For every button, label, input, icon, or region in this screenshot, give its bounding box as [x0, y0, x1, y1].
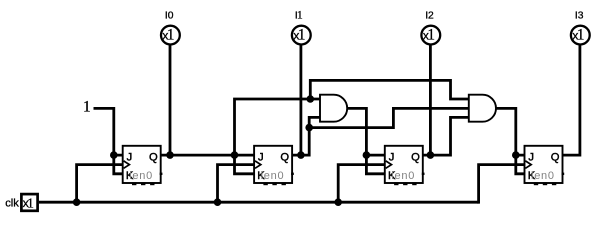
wire I2 riser: [429, 44, 432, 155]
flip-flop U4 JK: [525, 146, 565, 185]
junction FF1 J node: [110, 151, 118, 159]
junction AND2 FF4.J: [512, 151, 520, 159]
wire clk riser FF4: [479, 165, 525, 204]
svg-text:1: 1: [167, 27, 175, 44]
svg-text:Q: Q: [551, 151, 560, 163]
svg-text:J: J: [258, 151, 264, 163]
wire clk bus: [39, 201, 479, 204]
junction clk bus FF2: [214, 198, 222, 206]
wire I1 riser: [299, 44, 302, 155]
junction clk bus FF1: [73, 198, 81, 206]
output pin I1: [292, 26, 311, 45]
svg-text:1: 1: [298, 27, 306, 44]
svg-text:clk: clk: [5, 198, 19, 210]
svg-text:I3: I3: [575, 10, 584, 21]
wire AND2 out to FF4: [496, 108, 525, 155]
flip-flop U2 JK: [254, 146, 294, 185]
svg-text:I2: I2: [425, 10, 434, 21]
wire FF1 K elbow: [114, 155, 123, 174]
svg-text:len0: len0: [531, 170, 555, 182]
wire Q3: FF4.Q to I3: [563, 44, 580, 155]
wire I0 riser: [169, 44, 172, 155]
wire const-1 to FF1 J: [94, 108, 123, 155]
svg-text:J: J: [127, 151, 133, 163]
AND gate G1: [320, 95, 347, 122]
wire FF2 K elbow: [235, 155, 255, 174]
wire Q1 rail to AND2.in2: [309, 108, 469, 127]
svg-text:len0: len0: [129, 170, 153, 182]
wire FF3 K elbow: [366, 155, 384, 174]
input pin clk: [21, 194, 37, 211]
wire FF4 K elbow: [516, 155, 525, 174]
wire AND1 out to FF3: [347, 108, 385, 155]
wire Q0 top rail to AND2.in1: [310, 80, 469, 99]
wire clk riser FF1: [77, 165, 123, 203]
output pin I0: [161, 26, 180, 45]
wire Q0 riser to AND1.in1: [235, 99, 321, 155]
svg-text:1: 1: [427, 27, 435, 44]
svg-text:1: 1: [27, 195, 34, 210]
svg-text:Q: Q: [411, 151, 420, 163]
svg-text:J: J: [389, 151, 395, 163]
output pin I3: [571, 26, 590, 45]
svg-text:J: J: [528, 151, 534, 163]
wire clk riser FF3: [338, 165, 385, 203]
svg-text:Q: Q: [149, 151, 158, 163]
flip-flop U1 JK: [123, 146, 163, 185]
junction clk bus FF3: [334, 198, 342, 206]
svg-text:len0: len0: [261, 170, 285, 182]
flip-flop U3 JK: [385, 146, 425, 185]
junction Q0 AND1.in1: [307, 95, 315, 103]
junction I1 tap: [297, 151, 305, 159]
svg-text:len0: len0: [391, 170, 415, 182]
svg-text:I0: I0: [165, 10, 174, 21]
output pin I2: [421, 26, 440, 45]
junction Q1 rail tap: [305, 124, 313, 132]
junction I0 tap: [166, 151, 174, 159]
svg-text:1: 1: [83, 99, 91, 116]
wire Q1: FF2.Q elbow to AND1.in2: [292, 117, 320, 155]
AND gate G2: [469, 95, 496, 122]
wire Q0: FF1.Q to FF2.J: [161, 154, 254, 157]
svg-text:1: 1: [577, 27, 585, 44]
svg-text:Q: Q: [280, 151, 289, 163]
junction I2 tap: [427, 151, 435, 159]
svg-text:1: 1: [297, 8, 303, 22]
junction AND1 FF3.J: [363, 151, 371, 159]
wire Q2: FF3.Q to AND2.in3: [423, 117, 469, 155]
junction Q0 riser: [231, 151, 239, 159]
wire clk riser FF2: [218, 165, 255, 203]
